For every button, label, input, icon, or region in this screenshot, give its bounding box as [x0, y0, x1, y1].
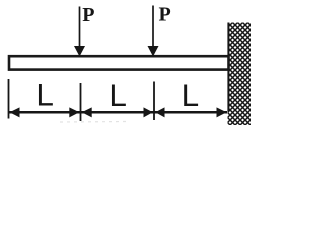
svg-text:P: P: [82, 4, 94, 26]
faint scan smudge: [60, 121, 128, 124]
fixed wall support (hatched): [228, 23, 252, 126]
dim arrowhead right of seg2 (points right into tick): [144, 107, 153, 117]
dim arrowhead right of seg1 (points right into tick): [69, 107, 79, 117]
dim arrowhead left end (points left): [10, 107, 20, 117]
svg-text:L: L: [109, 77, 127, 113]
load arrow P1 shaft: [79, 7, 81, 49]
extension line at x=154: [153, 82, 155, 121]
dim arrowhead right end (points right to wall): [217, 107, 227, 117]
load arrow P1 head: [74, 46, 85, 57]
svg-text:L: L: [182, 77, 200, 113]
dimension line: [9, 111, 227, 114]
svg-text:L: L: [36, 77, 54, 113]
load arrow P2 head: [148, 46, 159, 57]
svg-text:P: P: [159, 3, 171, 25]
load arrow P2 shaft: [152, 6, 154, 49]
dim arrowhead left of seg3 (points left into tick): [155, 107, 164, 117]
extension line at x=80.5: [80, 83, 82, 121]
wall left edge line: [227, 23, 229, 112]
dim arrowhead left of seg2 (points left into tick): [82, 107, 92, 117]
beam: [9, 56, 229, 69]
extension line left: [8, 79, 10, 119]
